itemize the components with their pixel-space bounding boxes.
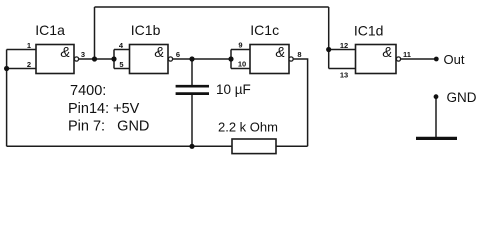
wire IC1c output down to resistor right [293,59,307,146]
wire IC1d pin12 stub [329,49,356,51]
svg-text:Pin14: +5V: Pin14: +5V [68,101,140,117]
junction dot left input tie [4,66,9,71]
wire IC1d pin13 stub [329,68,356,70]
svg-text:13: 13 [340,71,348,80]
wire IC1c input tie vertical [230,50,232,69]
svg-text:7400:: 7400: [70,83,106,99]
capacitor C1 plates [176,86,209,93]
svg-text:10 µF: 10 µF [216,82,251,97]
NAND gate IC1a body [36,45,79,74]
svg-text:1: 1 [27,41,31,50]
wire top feedback rail [95,6,329,8]
svg-text:IC1c: IC1c [250,22,279,38]
wire IC1a output to IC1b input [79,58,114,60]
node Out terminal [434,57,439,62]
wire IC1b input tie vertical [113,50,115,69]
IC power note text [68,83,149,134]
svg-text:5: 5 [119,60,123,69]
svg-text:6: 6 [176,50,180,59]
resistor R1 body [232,139,276,154]
junction capacitor to bottom rail [189,144,194,149]
svg-text:IC1b: IC1b [131,22,161,38]
output bubble IC1a [74,57,78,61]
junction IC1c input tie [228,56,233,61]
junction IC1b input tie [111,56,116,61]
wire IC1a pin1 stub [7,49,36,51]
svg-text:11: 11 [403,50,411,59]
wire bottom rail left of resistor [7,145,232,147]
wire IC1d output to Out terminal [401,58,436,60]
svg-text:2: 2 [27,60,31,69]
junction node at pin 3 [92,56,97,61]
svg-text:&: & [382,45,392,61]
wire drop from top rail to IC1d inputs [328,7,330,69]
svg-text:Out: Out [444,52,465,67]
output bubble IC1b [168,57,172,61]
ground symbol bar [416,137,457,140]
svg-text:&: & [60,45,70,61]
NAND gate IC1b body [130,45,173,74]
wire left vertical (IC1a inputs to bottom rail) [6,50,8,147]
wire riser from node at pin3 to top rail [94,7,96,59]
wire capacitor top lead [191,59,193,85]
junction IC1d input tie [326,47,331,52]
wire IC1c pin10 stub [231,68,250,70]
wire IC1b pin4 stub [114,49,130,51]
wire bottom rail right of resistor [276,145,308,147]
svg-text:&: & [275,45,285,61]
svg-text:IC1a: IC1a [35,22,65,38]
node GND terminal [434,94,439,99]
svg-text:8: 8 [297,50,301,59]
output bubble IC1c [289,57,293,61]
svg-text:3: 3 [81,50,85,59]
svg-text:Pin 7: GND: Pin 7: GND [68,118,149,134]
wire IC1b pin5 stub [114,68,130,70]
svg-text:IC1d: IC1d [354,23,384,39]
output bubble IC1d [396,57,400,61]
wire capacitor bottom lead [191,95,193,146]
svg-text:12: 12 [340,41,348,50]
svg-text:2.2 k Ohm: 2.2 k Ohm [218,120,278,135]
svg-text:GND: GND [447,90,477,105]
wire IC1c pin9 stub [231,49,250,51]
NAND gate IC1c body [250,45,293,74]
junction capacitor tap [189,56,194,61]
wire IC1b output to IC1c input [173,58,231,60]
wire GND terminal lead [435,97,437,137]
NAND gate IC1d body [356,45,401,74]
svg-text:10: 10 [238,60,246,69]
svg-text:&: & [154,45,164,61]
svg-text:9: 9 [238,40,242,49]
wire IC1a pin2 stub [7,68,36,70]
